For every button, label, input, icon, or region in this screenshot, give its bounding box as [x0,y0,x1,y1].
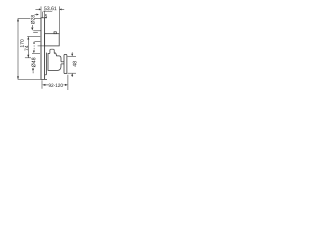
dim 92-120 right arrowhead [65,84,68,86]
small knob above lever [50,49,54,53]
dim 170 top extension a [18,18,31,20]
dim value 48 rotated [73,61,77,66]
dim 5 arrowhead [37,14,39,16]
plate top cap [41,17,47,19]
extension lever top edge [32,52,40,54]
wall line [40,18,42,80]
dim 170 bottom arrowhead [17,76,19,79]
dim 53.61 right arrowhead [59,8,61,10]
dim 92-120 right extension [67,75,69,90]
dim mid dash a [33,45,35,46]
dim 92-120 left tail [45,84,48,86]
dim 74 line [27,37,29,58]
sleeve bottom cap [45,74,47,76]
dim 92-120 left extension [41,80,43,89]
dim mid dash b [33,48,35,50]
sleeve outer line [45,53,47,75]
dim mid up arrowhead [33,41,35,43]
lever stem bottom [61,63,64,65]
dim 74 top extension [27,36,40,38]
wall extension upper [40,6,42,17]
plate front edge [44,18,46,80]
dim 48 top extension [67,55,76,57]
dim 48 bottom stub [71,76,73,77]
dim 74 top arrowhead [27,37,29,40]
dim 5 stub extension [41,12,43,18]
valve box body [45,34,60,46]
dim O48 bottom stub [32,71,34,73]
dim O48 bottom arrowhead [32,69,34,72]
dim 53.61 right arrow tail [62,8,65,10]
dim 53.61 left arrowhead [39,8,41,10]
extension mid flange [35,40,41,42]
dim O28 arrow stub [31,25,33,27]
dim 92-120 right tail [63,84,65,86]
dim 170 bottom extension [18,78,41,80]
dim value O28 rotated [31,15,35,24]
lever body outline [48,53,61,71]
plate bottom cap [41,78,47,80]
plate front extension upper [44,11,46,18]
dim value 92-120 [49,84,63,87]
dim value 53.61 [44,7,56,11]
dim 5 arrow tail [35,14,37,16]
dim O28 down arrowhead [31,28,33,31]
extension box bottom [38,45,45,47]
dim 53.61 right extension line [58,6,60,33]
dim 74 bottom arrowhead [27,55,29,58]
dim 170 top arrowhead [17,19,19,22]
dim value 74 rotated [25,46,28,51]
lever stem top [61,61,64,63]
dim 74 bottom extension [25,57,31,59]
dim 5 top dash [43,10,52,12]
dim 48 top arrowhead [71,54,73,57]
tab on box top [54,32,56,34]
dim 48 top stub [71,52,73,53]
dim 170 top extension b [35,18,41,20]
extension line box top [33,32,38,34]
dim O48 top arrowhead [33,51,35,54]
dim 48 bottom arrowhead [71,73,73,76]
dim 92-120 left arrowhead [42,84,45,86]
extension line tab top [33,30,41,32]
dim 170 line [17,19,19,80]
dim value 5 [45,14,47,17]
grip blade [64,54,67,73]
dim value 170 rotated [20,39,24,47]
dim 53.61 left arrow tail [35,8,39,10]
dim value O48 rotated [32,58,36,68]
dim 48 bottom extension [67,72,76,74]
